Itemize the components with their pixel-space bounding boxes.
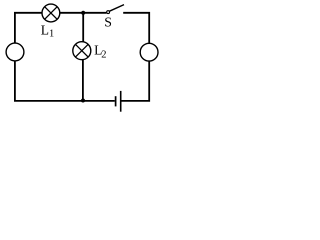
svg-text:1: 1 xyxy=(49,29,54,40)
switch S contact circle xyxy=(107,11,110,14)
junction dot top xyxy=(81,11,85,15)
lamp L2 circle xyxy=(73,42,91,60)
wire right upper vertical + top-right xyxy=(123,13,149,44)
wire bottom-right + right lower vertical xyxy=(121,61,149,101)
wire top-left + left upper vertical xyxy=(15,13,42,43)
svg-text:S: S xyxy=(104,15,112,30)
battery short plate (negative) xyxy=(115,96,117,106)
wire middle branch lower xyxy=(82,60,84,101)
left meter circle xyxy=(6,43,24,61)
wire bottom middle to battery xyxy=(83,100,115,102)
right meter circle xyxy=(140,43,158,61)
svg-text:L: L xyxy=(41,22,49,37)
junction dot bottom xyxy=(81,99,85,103)
svg-text:2: 2 xyxy=(101,50,106,61)
battery long plate (positive) xyxy=(120,91,122,112)
wire middle branch upper xyxy=(82,13,84,42)
wire top middle (switch to L1) xyxy=(60,12,107,14)
lamp L1 cross xyxy=(45,7,58,20)
switch S blade xyxy=(109,5,124,12)
lamp L2 cross xyxy=(75,44,88,57)
lamp L1 circle xyxy=(42,4,60,22)
wire left lower vertical + bottom-left xyxy=(15,61,84,101)
